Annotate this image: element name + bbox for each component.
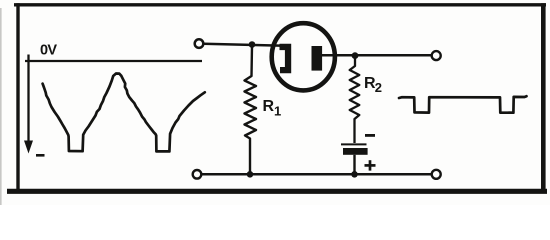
input terminal (bottom left, open circle) bbox=[193, 170, 202, 179]
battery plus label bbox=[365, 160, 376, 170]
axis arrow (amplitude, downward) bbox=[25, 55, 33, 153]
tube V1 cathode bracket bbox=[280, 44, 292, 73]
svg-text:2: 2 bbox=[375, 80, 382, 95]
battery minus label bbox=[365, 134, 375, 137]
svg-text:R: R bbox=[263, 98, 275, 115]
wire: anode to output node bbox=[322, 54, 432, 57]
svg-text:0V: 0V bbox=[40, 43, 57, 59]
wire: input terminal to tube grid bbox=[204, 44, 280, 46]
junction node at R1 top bbox=[249, 41, 256, 48]
tube V1 anode plate bbox=[312, 46, 323, 71]
input terminal (top left, open circle) bbox=[195, 39, 204, 48]
output terminal (bottom right, open circle) bbox=[432, 170, 441, 179]
tube V1 envelope bbox=[272, 23, 335, 90]
minus sign under arrow bbox=[36, 154, 45, 157]
junction node: battery bottom bbox=[351, 171, 358, 178]
junction node: R1 bottom bbox=[247, 171, 254, 178]
output terminal (top right, open circle) bbox=[432, 51, 441, 60]
resistor R1 bbox=[245, 46, 257, 172]
battery thick (positive) plate bbox=[343, 148, 368, 155]
junction node at R2 top bbox=[352, 52, 359, 59]
svg-text:1: 1 bbox=[274, 104, 281, 119]
output waveform (negative square pulses) bbox=[399, 96, 527, 113]
wire: bottom rail bbox=[202, 173, 432, 176]
wire: battery to bottom rail bbox=[353, 155, 355, 174]
zero-volt reference line bbox=[25, 60, 202, 62]
resistor R2 bbox=[350, 57, 360, 143]
input waveform (clipped sawtooth) bbox=[43, 74, 205, 152]
battery thin (negative) plate bbox=[341, 143, 367, 145]
